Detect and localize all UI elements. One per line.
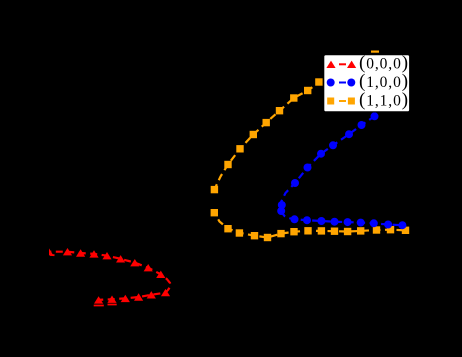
- curve (0,0,0) red dashed line: [44, 248, 170, 306]
- curve (1,1,0) orange dashed line: [214, 59, 362, 190]
- orange square markers: [211, 78, 410, 241]
- svg-text:(1,1,0): (1,1,0): [359, 90, 409, 111]
- blue circle markers: [277, 112, 406, 229]
- extra faint under-dashes on lower-left red branch: [50, 255, 117, 306]
- legend row 3: orange: [339, 100, 346, 102]
- legend box: [324, 55, 410, 112]
- legend row 1: red: [339, 63, 346, 65]
- orange lower branch line: [214, 213, 405, 238]
- red triangle markers: [44, 248, 170, 304]
- curve (1,0,0) blue dashed line: [280, 116, 402, 225]
- legend row 2: blue: [339, 82, 346, 84]
- orange top dash above legend: [371, 51, 379, 53]
